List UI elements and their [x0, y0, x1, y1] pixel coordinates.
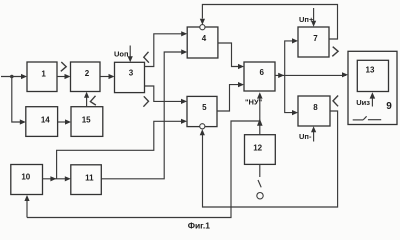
svg-text:7: 7	[313, 34, 318, 43]
svg-text:11: 11	[85, 174, 94, 183]
svg-text:1: 1	[41, 69, 46, 78]
svg-text:Uоп: Uоп	[114, 50, 129, 59]
svg-text:8: 8	[313, 103, 318, 112]
svg-text:9: 9	[386, 101, 392, 112]
svg-text:"НУ": "НУ"	[245, 97, 263, 106]
svg-text:5: 5	[202, 103, 207, 112]
svg-text:2: 2	[85, 69, 90, 78]
svg-text:Uп-: Uп-	[299, 132, 312, 141]
svg-text:10: 10	[21, 173, 30, 182]
svg-text:14: 14	[41, 115, 50, 124]
svg-text:6: 6	[259, 68, 264, 77]
svg-text:Uп+: Uп+	[299, 15, 314, 24]
svg-text:12: 12	[253, 144, 262, 153]
svg-text:13: 13	[366, 65, 375, 74]
svg-text:Фиг.1: Фиг.1	[188, 220, 211, 230]
svg-text:4: 4	[202, 34, 207, 43]
svg-text:Uиз: Uиз	[356, 98, 370, 107]
svg-text:15: 15	[82, 115, 91, 124]
svg-text:3: 3	[129, 69, 134, 78]
